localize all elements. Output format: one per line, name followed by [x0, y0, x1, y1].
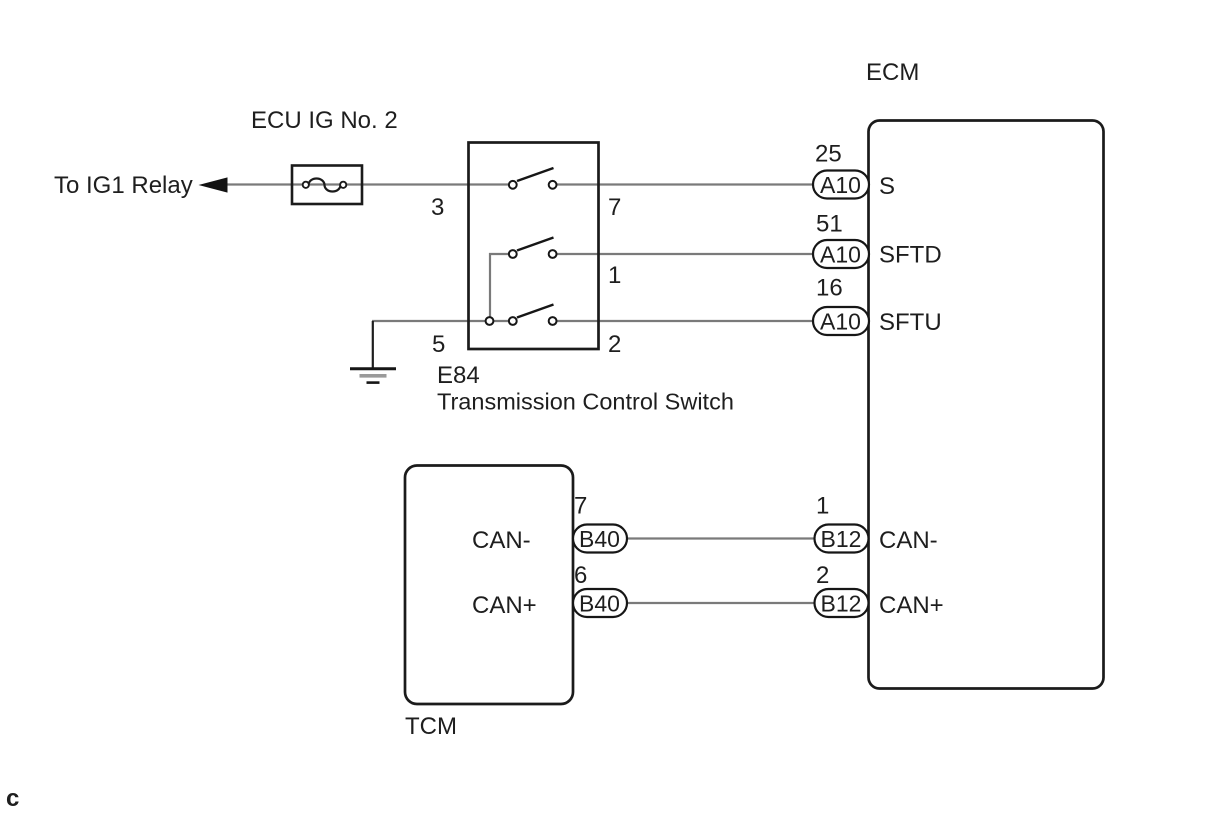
svg-text:1: 1 — [816, 493, 829, 520]
svg-text:A10: A10 — [820, 242, 861, 268]
svg-text:E84: E84 — [437, 362, 480, 389]
svg-text:B40: B40 — [579, 526, 620, 552]
svg-text:1: 1 — [608, 262, 621, 289]
fuse F1 ECU IG No.2 box — [292, 166, 362, 205]
svg-text:3: 3 — [431, 194, 444, 221]
svg-text:7: 7 — [574, 493, 587, 520]
switch blade row 1 — [517, 168, 554, 181]
svg-text:S: S — [879, 173, 895, 200]
switch box E84 — [469, 143, 599, 350]
switch contact row1 right — [549, 181, 557, 189]
svg-text:CAN-: CAN- — [472, 527, 531, 554]
switch contact row3 right — [549, 317, 557, 325]
svg-text:2: 2 — [816, 562, 829, 589]
wire vertical junction row2 to row3 — [489, 253, 491, 320]
wire TCM B40-7 to ECM B12-1 (CAN-) — [626, 537, 816, 539]
svg-text:CAN+: CAN+ — [472, 592, 537, 619]
svg-text:CAN-: CAN- — [879, 527, 938, 554]
arrow to IG1 relay — [199, 177, 228, 192]
svg-text:To IG1 Relay: To IG1 Relay — [54, 172, 193, 199]
connector B40 pin 6 — [573, 589, 627, 617]
svg-text:B12: B12 — [821, 526, 862, 552]
fuse element curve — [309, 179, 341, 192]
svg-text:51: 51 — [816, 211, 843, 238]
ground wire vertical — [372, 321, 374, 368]
svg-text:ECM: ECM — [866, 59, 919, 86]
switch contact row1 left — [509, 181, 517, 189]
svg-text:25: 25 — [815, 141, 842, 168]
wire switch pin 7 to ECM A10-25 (row S) — [555, 183, 814, 185]
svg-text:Transmission Control Switch: Transmission Control Switch — [437, 389, 734, 415]
connector A10 pin 25 — [813, 171, 869, 199]
switch contact row2 left — [509, 250, 517, 258]
wire ground to switch pin 5 (row SFTU) — [372, 320, 510, 322]
svg-text:TCM: TCM — [405, 713, 457, 740]
ECM box — [869, 121, 1104, 689]
fuse terminal circle left — [303, 182, 309, 188]
switch contact row2 right — [549, 250, 557, 258]
connector A10 pin 16 — [813, 307, 869, 335]
wire To IG1 Relay to switch pin 3 (row S) — [221, 183, 510, 185]
svg-text:SFTD: SFTD — [879, 242, 942, 269]
svg-text:7: 7 — [608, 194, 621, 221]
svg-text:A10: A10 — [820, 309, 861, 335]
switch blade row 3 — [517, 305, 554, 318]
fuse terminal circle right — [340, 182, 346, 188]
svg-text:6: 6 — [574, 562, 587, 589]
connector B40 pin 7 — [573, 525, 627, 553]
svg-text:ECU IG No. 2: ECU IG No. 2 — [251, 107, 398, 134]
wire switch pin 1 to ECM A10-51 (row SFTD) — [555, 253, 814, 255]
TCM box — [405, 466, 573, 705]
svg-text:2: 2 — [608, 331, 621, 358]
wire TCM B40-6 to ECM B12-2 (CAN+) — [626, 602, 816, 604]
svg-text:A10: A10 — [820, 172, 861, 198]
switch blade row 2 — [517, 238, 554, 251]
wire switch row 2 left stub — [489, 253, 510, 255]
svg-text:16: 16 — [816, 275, 843, 302]
connector B12 pin 1 — [815, 525, 869, 553]
switch contact row3 left — [509, 317, 517, 325]
svg-text:B40: B40 — [579, 591, 620, 617]
connector B12 pin 2 — [815, 589, 869, 617]
svg-text:c: c — [6, 785, 19, 812]
svg-text:B12: B12 — [821, 591, 862, 617]
wire switch pin 2 to ECM A10-16 (row SFTU) — [555, 320, 814, 322]
svg-text:SFTU: SFTU — [879, 309, 942, 336]
connector A10 pin 51 — [813, 240, 869, 268]
ground symbol — [350, 369, 396, 383]
svg-text:CAN+: CAN+ — [879, 592, 944, 619]
junction node circle row 3 — [486, 317, 494, 325]
svg-text:5: 5 — [432, 331, 445, 358]
